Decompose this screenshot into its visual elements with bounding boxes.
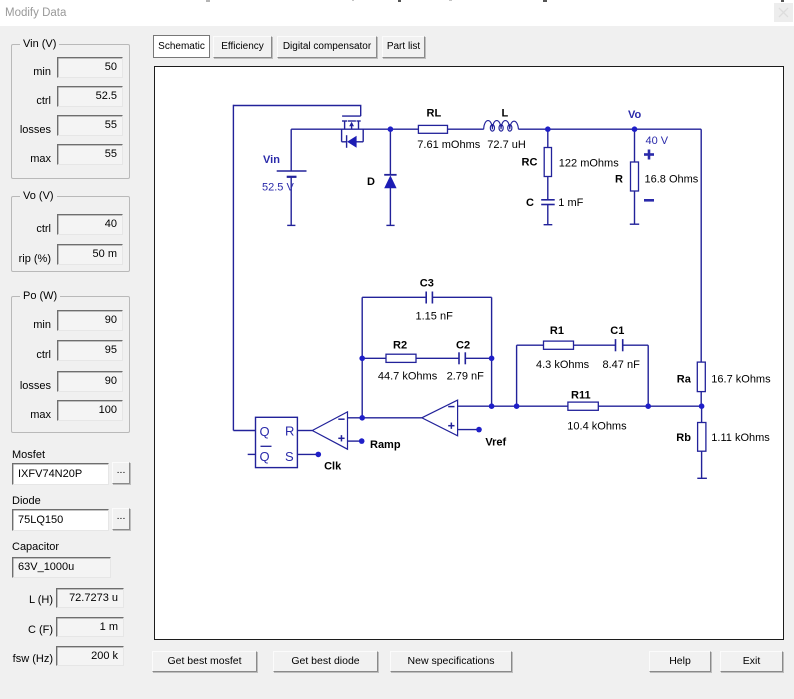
tabs: [153, 35, 210, 58]
svg-text:Q: Q: [260, 424, 270, 439]
diode D: [384, 129, 396, 225]
L C fsw: [10, 594, 53, 606]
node error minus A: [489, 403, 495, 409]
resistor R: [630, 129, 639, 224]
Diode: [12, 495, 41, 507]
svg-text:72.7 uH: 72.7 uH: [487, 139, 526, 151]
resistor RL: [418, 125, 447, 133]
svg-text:C3: C3: [420, 278, 434, 290]
svg-text:122 mOhms: 122 mOhms: [559, 158, 619, 170]
svg-text:L: L: [502, 108, 509, 120]
svg-text:Ra: Ra: [677, 373, 692, 385]
wire C3 left vertical: [361, 297, 363, 418]
svg-text:R: R: [285, 424, 294, 439]
battery Vin: [277, 129, 307, 225]
svg-text:16.7 kOhms: 16.7 kOhms: [711, 373, 771, 385]
node Clk terminal: [316, 452, 322, 458]
node comparator minus: [359, 415, 365, 421]
wire right edge vertical down to Ra: [700, 129, 702, 362]
node Ramp terminal: [359, 438, 365, 444]
wire feedback left vertical: [232, 105, 234, 431]
op-amp error amplifier U2: [422, 400, 458, 436]
node R2 left: [359, 356, 365, 362]
svg-text:7.61 mOhms: 7.61 mOhms: [417, 139, 480, 151]
node C2 right: [489, 356, 495, 362]
svg-text:S: S: [285, 449, 294, 464]
svg-text:RC: RC: [522, 157, 538, 169]
svg-text:Vo: Vo: [628, 109, 642, 121]
wire RL to L: [448, 128, 484, 130]
plus sign output: [644, 150, 654, 160]
svg-text:10.4 kOhms: 10.4 kOhms: [567, 421, 627, 433]
svg-text:Vref: Vref: [485, 437, 506, 449]
svg-text:R: R: [615, 174, 623, 186]
Vo group: [11, 196, 130, 272]
capacitor C1: [616, 339, 649, 406]
node switch: [388, 126, 394, 132]
wire main rail: [291, 128, 418, 130]
flip-flop SR latch: [233, 417, 318, 467]
bottom buttons: [152, 651, 257, 672]
schematic panel: [154, 66, 784, 640]
svg-text:RL: RL: [427, 108, 442, 120]
resistor R1: [517, 341, 616, 406]
svg-text:R2: R2: [393, 339, 407, 351]
svg-text:4.3 kOhms: 4.3 kOhms: [536, 359, 590, 371]
svg-text:C2: C2: [456, 339, 470, 351]
svg-text:44.7 kOhms: 44.7 kOhms: [378, 371, 438, 383]
capacitor C3: [362, 292, 491, 304]
inductor L: [484, 121, 519, 132]
capacitor C2: [459, 352, 492, 364]
svg-text:Vin: Vin: [263, 154, 280, 166]
wire comparator plus input (Ramp): [348, 440, 362, 442]
svg-text:1 mF: 1 mF: [558, 197, 583, 209]
node Ra Rb junction: [699, 403, 705, 409]
minus sign output: [644, 199, 654, 202]
svg-text:52.5 V: 52.5 V: [262, 182, 294, 194]
capacitor C: [541, 200, 555, 225]
wire comparator minus input / error amp output: [348, 417, 422, 419]
Po group: [11, 296, 130, 433]
svg-text:2.79 nF: 2.79 nF: [447, 371, 485, 383]
svg-text:C: C: [526, 197, 534, 209]
node R1 left: [514, 403, 520, 409]
Vin group: [11, 44, 130, 179]
node R1C1 right: [645, 403, 651, 409]
svg-text:Rb: Rb: [676, 432, 691, 444]
op-amp comparator U1: [312, 412, 347, 449]
svg-text:Clk: Clk: [324, 460, 342, 472]
resistor R2: [362, 354, 459, 362]
svg-text:1.11 kOhms: 1.11 kOhms: [711, 432, 770, 444]
resistor Ra: [697, 362, 705, 406]
resistor Rb: [697, 406, 707, 478]
wire feedback top horizontal: [233, 106, 360, 117]
Capacitor: [12, 541, 59, 553]
resistor R11: [458, 402, 702, 410]
svg-text:8.47 nF: 8.47 nF: [603, 359, 641, 371]
wire L to Vo corner: [518, 128, 701, 130]
node Vref terminal: [476, 427, 482, 433]
svg-text:D: D: [367, 176, 375, 188]
resistor RC: [544, 129, 551, 200]
svg-text:40 V: 40 V: [646, 135, 669, 147]
svg-text:1.15 nF: 1.15 nF: [416, 311, 454, 323]
mosfet Q1: [342, 116, 364, 148]
wire error amp plus input (Vref): [458, 429, 479, 431]
node Vo: [632, 126, 638, 132]
svg-text:R1: R1: [550, 325, 564, 337]
svg-text:R11: R11: [571, 390, 591, 402]
svg-text:Ramp: Ramp: [370, 439, 401, 451]
wire C3 right vertical: [491, 297, 493, 406]
Mosfet: [12, 449, 45, 461]
node RC branch: [545, 126, 551, 132]
svg-text:16.8 Ohms: 16.8 Ohms: [645, 174, 699, 186]
wire comparator output to R: [297, 430, 312, 432]
svg-text:Q: Q: [260, 449, 270, 464]
svg-text:C1: C1: [610, 325, 624, 337]
